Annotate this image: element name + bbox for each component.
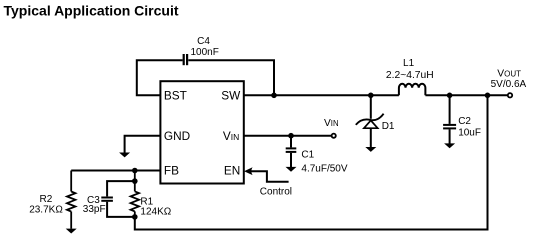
wire Control to EN (251, 171, 289, 182)
wire BST to C4 (137, 60, 183, 95)
IC U1 (160, 81, 243, 183)
svg-text:D1: D1 (382, 121, 395, 132)
svg-text:C1: C1 (301, 150, 314, 161)
svg-text:SW: SW (221, 89, 241, 103)
terminal VIN (332, 134, 336, 138)
capacitor C1 (286, 136, 297, 167)
svg-text:GND: GND (164, 129, 190, 143)
node C1 junction (288, 133, 294, 139)
svg-text:VIN: VIN (223, 129, 239, 143)
wire SW line (244, 94, 399, 96)
svg-text:5V/0.6A: 5V/0.6A (491, 79, 527, 90)
resistor R1 (131, 171, 139, 217)
node SW-BST junction (271, 93, 277, 99)
wire VIN line (244, 135, 332, 137)
ground for C1 (286, 167, 297, 172)
svg-text:2.2~4.7uH: 2.2~4.7uH (386, 70, 434, 81)
ground for GND pin (119, 153, 130, 158)
wire C4 to SW node (188, 60, 274, 95)
svg-text:C4: C4 (197, 36, 210, 47)
arrow into EN (245, 168, 252, 174)
terminal VOUT (508, 93, 512, 97)
svg-text:VIN: VIN (324, 118, 339, 129)
node C3 top junction (132, 178, 138, 184)
svg-text:Typical Application Circuit: Typical Application Circuit (4, 3, 179, 19)
resistor R2 (67, 171, 75, 229)
inductor L1 (399, 84, 425, 96)
ground for R2 (66, 229, 77, 234)
node VOUT branch (485, 93, 491, 99)
wire GND pin (125, 136, 161, 153)
node R1 bottom junction (132, 214, 138, 220)
ground for C2 (444, 143, 455, 148)
svg-text:Control: Control (260, 186, 292, 197)
node C2 junction (447, 93, 453, 99)
svg-text:BST: BST (164, 89, 187, 103)
svg-text:EN: EN (224, 164, 240, 178)
svg-text:L1: L1 (403, 58, 415, 69)
wire FB line (71, 170, 160, 172)
capacitor C3 (101, 181, 135, 217)
node D1 junction (368, 93, 374, 99)
capacitor C4 (184, 54, 187, 65)
svg-text:23.7KΩ: 23.7KΩ (29, 204, 63, 215)
diode D1 (356, 95, 384, 147)
capacitor C2 (443, 95, 456, 143)
svg-text:100nF: 100nF (191, 47, 219, 58)
node FB junction (132, 168, 138, 174)
wire feedback from VOUT (135, 95, 488, 229)
svg-text:4.7uF/50V: 4.7uF/50V (301, 163, 347, 174)
svg-text:124KΩ: 124KΩ (140, 206, 171, 217)
ground for D1 (365, 147, 376, 152)
svg-text:10uF: 10uF (458, 127, 481, 138)
svg-text:C2: C2 (458, 116, 471, 127)
svg-text:FB: FB (164, 164, 179, 178)
svg-text:VOUT: VOUT (497, 68, 521, 79)
svg-text:33pF: 33pF (83, 204, 106, 215)
wire L1 to VOUT (425, 94, 508, 96)
